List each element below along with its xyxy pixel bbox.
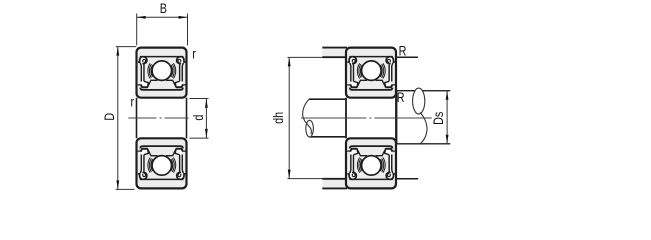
d arrow bottom	[205, 129, 208, 138]
D arrow top	[116, 47, 119, 56]
B arrow left	[137, 16, 146, 19]
Ds arrow top	[446, 91, 449, 100]
shaft break curve (left)	[303, 99, 312, 134]
dh arrow top	[288, 57, 291, 66]
bearing section bottom (right view, mirrored)	[346, 138, 396, 188]
dimension B extension lines	[137, 14, 188, 46]
bearing section top (right view)	[346, 48, 396, 98]
svg-text:dh: dh	[271, 112, 286, 124]
dimension d line	[205, 99, 207, 138]
dimension dh line	[288, 57, 290, 178]
B arrow right	[179, 16, 188, 19]
center line right view (dash-dot)	[301, 117, 432, 119]
shaft break ellipse (left)	[306, 120, 314, 137]
shaft shoulder face	[395, 91, 397, 144]
shaft break curve (right)	[420, 113, 427, 144]
shaft shoulder bottom line	[397, 143, 451, 145]
bore side face line right	[186, 98, 188, 139]
svg-text:D: D	[102, 113, 117, 121]
svg-text:r: r	[130, 94, 134, 109]
svg-text:R: R	[399, 43, 407, 58]
center line (dash-dot)	[128, 117, 188, 119]
bore side face line left	[136, 98, 138, 139]
dimension Ds line	[446, 91, 448, 144]
housing bore line top	[322, 47, 347, 49]
dimension d extension lines	[190, 99, 209, 139]
dimension D line	[117, 47, 119, 190]
bearing section bottom (mirrored)	[137, 138, 187, 188]
shaft break ellipse (right)	[413, 88, 425, 114]
svg-text:Ds: Ds	[431, 112, 446, 125]
shaft shoulder top line	[397, 90, 451, 92]
svg-text:r: r	[192, 46, 196, 61]
dh arrow bottom	[288, 170, 291, 179]
housing shoulder line top-left	[322, 56, 347, 58]
dimension Ds extension line top	[424, 90, 450, 92]
housing shoulder line bottom-left	[322, 178, 347, 180]
D arrow bottom	[116, 180, 119, 189]
bore side face line left (right view)	[345, 98, 347, 139]
dimension D extension lines	[116, 47, 137, 190]
housing shoulder fill top	[322, 49, 346, 57]
housing bore line bottom	[322, 187, 347, 189]
housing shoulder line top-right (R fillet)	[396, 56, 418, 58]
shaft upper line	[309, 98, 346, 100]
bearing section top	[137, 48, 187, 98]
svg-text:d: d	[191, 114, 206, 120]
bore side face line right (right view)	[395, 98, 397, 139]
svg-text:B: B	[160, 1, 167, 16]
dimension dh extension lines	[288, 57, 323, 178]
dimension Ds extension line bottom	[424, 143, 450, 145]
svg-text:R: R	[397, 90, 405, 105]
d arrow top	[205, 99, 208, 108]
housing shoulder line bottom-right	[396, 178, 418, 180]
shaft lower line	[309, 136, 346, 138]
Ds arrow bottom	[446, 135, 449, 144]
dimension B line	[137, 16, 188, 18]
housing shoulder fill bottom	[322, 180, 346, 188]
